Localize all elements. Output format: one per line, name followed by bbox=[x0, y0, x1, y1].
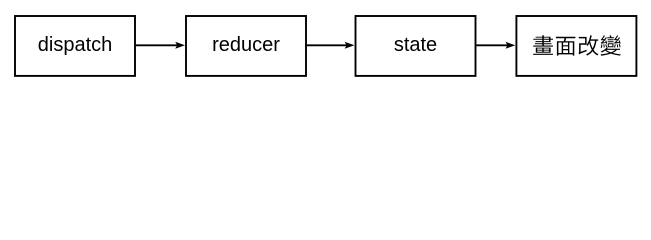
arrow 3: state to screen-change bbox=[476, 44, 507, 46]
glyph 變 bbox=[601, 35, 621, 56]
svg-text:state: state bbox=[394, 34, 437, 56]
arrow 1: dispatch to reducer bbox=[136, 44, 177, 46]
box: reducer bbox=[186, 16, 306, 76]
svg-text:dispatch: dispatch bbox=[38, 34, 113, 56]
glyph 改 bbox=[579, 35, 599, 55]
glyph 面 bbox=[556, 37, 576, 56]
box: screen-change (畫面改變) bbox=[516, 16, 636, 76]
box: state bbox=[356, 16, 476, 76]
glyph 畫 bbox=[533, 35, 553, 55]
svg-text:reducer: reducer bbox=[212, 34, 280, 56]
arrow 2: reducer to state bbox=[307, 44, 347, 46]
box: dispatch bbox=[15, 16, 135, 76]
